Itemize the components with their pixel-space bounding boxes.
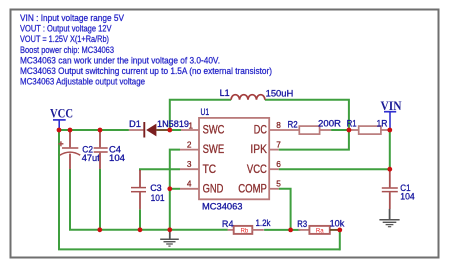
- svg-text:Ra: Ra: [316, 227, 324, 234]
- diode D1: [129, 122, 199, 138]
- wire C2 bottom to ground rail: [70, 169, 228, 230]
- svg-text:10k: 10k: [330, 219, 345, 230]
- wire left vertical: [58, 130, 60, 249]
- svg-text:SWC: SWC: [203, 124, 225, 137]
- power VCC: [50, 107, 73, 129]
- junction node R3 loop: [337, 228, 342, 233]
- svg-text:IPK: IPK: [250, 143, 267, 156]
- wire VCC rail to D1: [59, 129, 129, 131]
- capacitor C2: [58, 131, 80, 169]
- svg-text:D1: D1: [129, 119, 141, 130]
- svg-text:R4: R4: [222, 219, 234, 230]
- svg-text:1N5819: 1N5819: [157, 119, 189, 130]
- junction node R4 R3 COMP: [288, 228, 293, 233]
- junction node R2 R1 L1 pin7: [347, 128, 352, 133]
- svg-text:MC34063 can work under the inp: MC34063 can work under the input voltage…: [20, 55, 220, 65]
- svg-text:MC34063 Output switching curre: MC34063 Output switching current up to 1…: [20, 66, 272, 76]
- svg-text:L1: L1: [220, 88, 230, 99]
- wire C4 bottom: [99, 169, 101, 229]
- svg-text:5: 5: [276, 179, 281, 189]
- svg-text:R2: R2: [288, 120, 298, 131]
- wire pin6 VCC: [279, 168, 390, 170]
- svg-text:101: 101: [151, 193, 165, 204]
- svg-text:VIN : Input voltage range 5V: VIN : Input voltage range 5V: [20, 13, 124, 23]
- wire C3 bottom: [139, 209, 141, 229]
- resistor R2: [299, 126, 331, 134]
- svg-text:Rb: Rb: [241, 227, 249, 234]
- ground symbol right: [379, 209, 399, 227]
- capacitor C4: [94, 131, 108, 169]
- wire pin5 COMP down: [279, 189, 291, 230]
- resistor R1: [349, 126, 390, 134]
- capacitor C3: [131, 170, 146, 209]
- svg-text:DC: DC: [254, 124, 267, 137]
- svg-text:VOUT : Output voltage 12V: VOUT : Output voltage 12V: [20, 24, 112, 34]
- junction node C4 top: [98, 128, 103, 133]
- wire loop up to R3: [339, 230, 341, 251]
- svg-text:TC: TC: [203, 163, 217, 176]
- junction node VIN R1: [387, 128, 392, 133]
- junction node D1 L1 pin1: [167, 128, 172, 133]
- svg-text:R3: R3: [297, 219, 307, 230]
- svg-text:1.2k: 1.2k: [256, 218, 271, 229]
- svg-text:104: 104: [109, 153, 125, 164]
- wire L1 left: [170, 100, 231, 130]
- inductor L1: [231, 95, 265, 100]
- wire bottom loop: [58, 248, 340, 250]
- svg-text:VCC: VCC: [50, 107, 73, 121]
- svg-text:VOUT = 1.25V X(1+Ra/Rb): VOUT = 1.25V X(1+Ra/Rb): [20, 34, 109, 44]
- svg-text:3: 3: [187, 159, 192, 169]
- junction node C1 pin6: [387, 167, 392, 172]
- U1 right pin leads: [269, 130, 299, 189]
- svg-text:104: 104: [400, 192, 414, 203]
- capacitor C1: [382, 170, 398, 209]
- wire pin3 TC to C3: [140, 169, 180, 171]
- svg-text:MC34063 Adjustable output volt: MC34063 Adjustable output voltage: [20, 77, 145, 87]
- svg-text:7: 7: [276, 139, 281, 149]
- svg-text:1R: 1R: [377, 118, 388, 129]
- svg-text:VCC: VCC: [247, 163, 267, 176]
- svg-text:1: 1: [188, 121, 193, 131]
- resistor R4: [228, 226, 264, 235]
- svg-text:2: 2: [187, 139, 192, 149]
- junction node C3 ground rail: [138, 227, 143, 232]
- svg-text:SWE: SWE: [203, 143, 225, 156]
- junction node C2 top: [68, 128, 73, 133]
- wire R3 left: [291, 229, 301, 231]
- svg-text:Boost power chip: MC34063: Boost power chip: MC34063: [20, 45, 114, 55]
- wire L1 right: [265, 100, 349, 130]
- svg-text:COMP: COMP: [238, 182, 267, 195]
- svg-text:MC34063: MC34063: [202, 201, 243, 212]
- junction node ground rail: [167, 227, 172, 232]
- svg-text:4: 4: [187, 179, 192, 189]
- wire R4 right: [264, 229, 291, 231]
- svg-text:8: 8: [276, 120, 281, 130]
- junction node VCC rail: [57, 128, 62, 133]
- svg-text:U1: U1: [201, 107, 210, 118]
- svg-text:150uH: 150uH: [266, 89, 294, 100]
- svg-text:GND: GND: [203, 182, 224, 195]
- junction node pin4 GND: [167, 186, 172, 191]
- U1 left pin leads: [180, 150, 199, 189]
- ground symbol left: [160, 230, 179, 246]
- junction node C4 ground rail: [97, 227, 102, 232]
- wire VIN down to C1: [389, 130, 391, 169]
- wire pin4 GND: [170, 188, 180, 190]
- note text block: [20, 13, 272, 87]
- svg-text:200R: 200R: [318, 118, 341, 129]
- op-amp U1 MC34063 box: [199, 118, 269, 199]
- svg-text:47uf: 47uf: [82, 153, 100, 164]
- resistor R3: [298, 226, 339, 235]
- svg-text:6: 6: [276, 159, 281, 169]
- wire R2 to junction: [331, 129, 349, 131]
- power VIN: [381, 99, 402, 129]
- wire pin7 IPK: [279, 130, 349, 150]
- wire pin2 SWE down to ground rail: [170, 150, 180, 229]
